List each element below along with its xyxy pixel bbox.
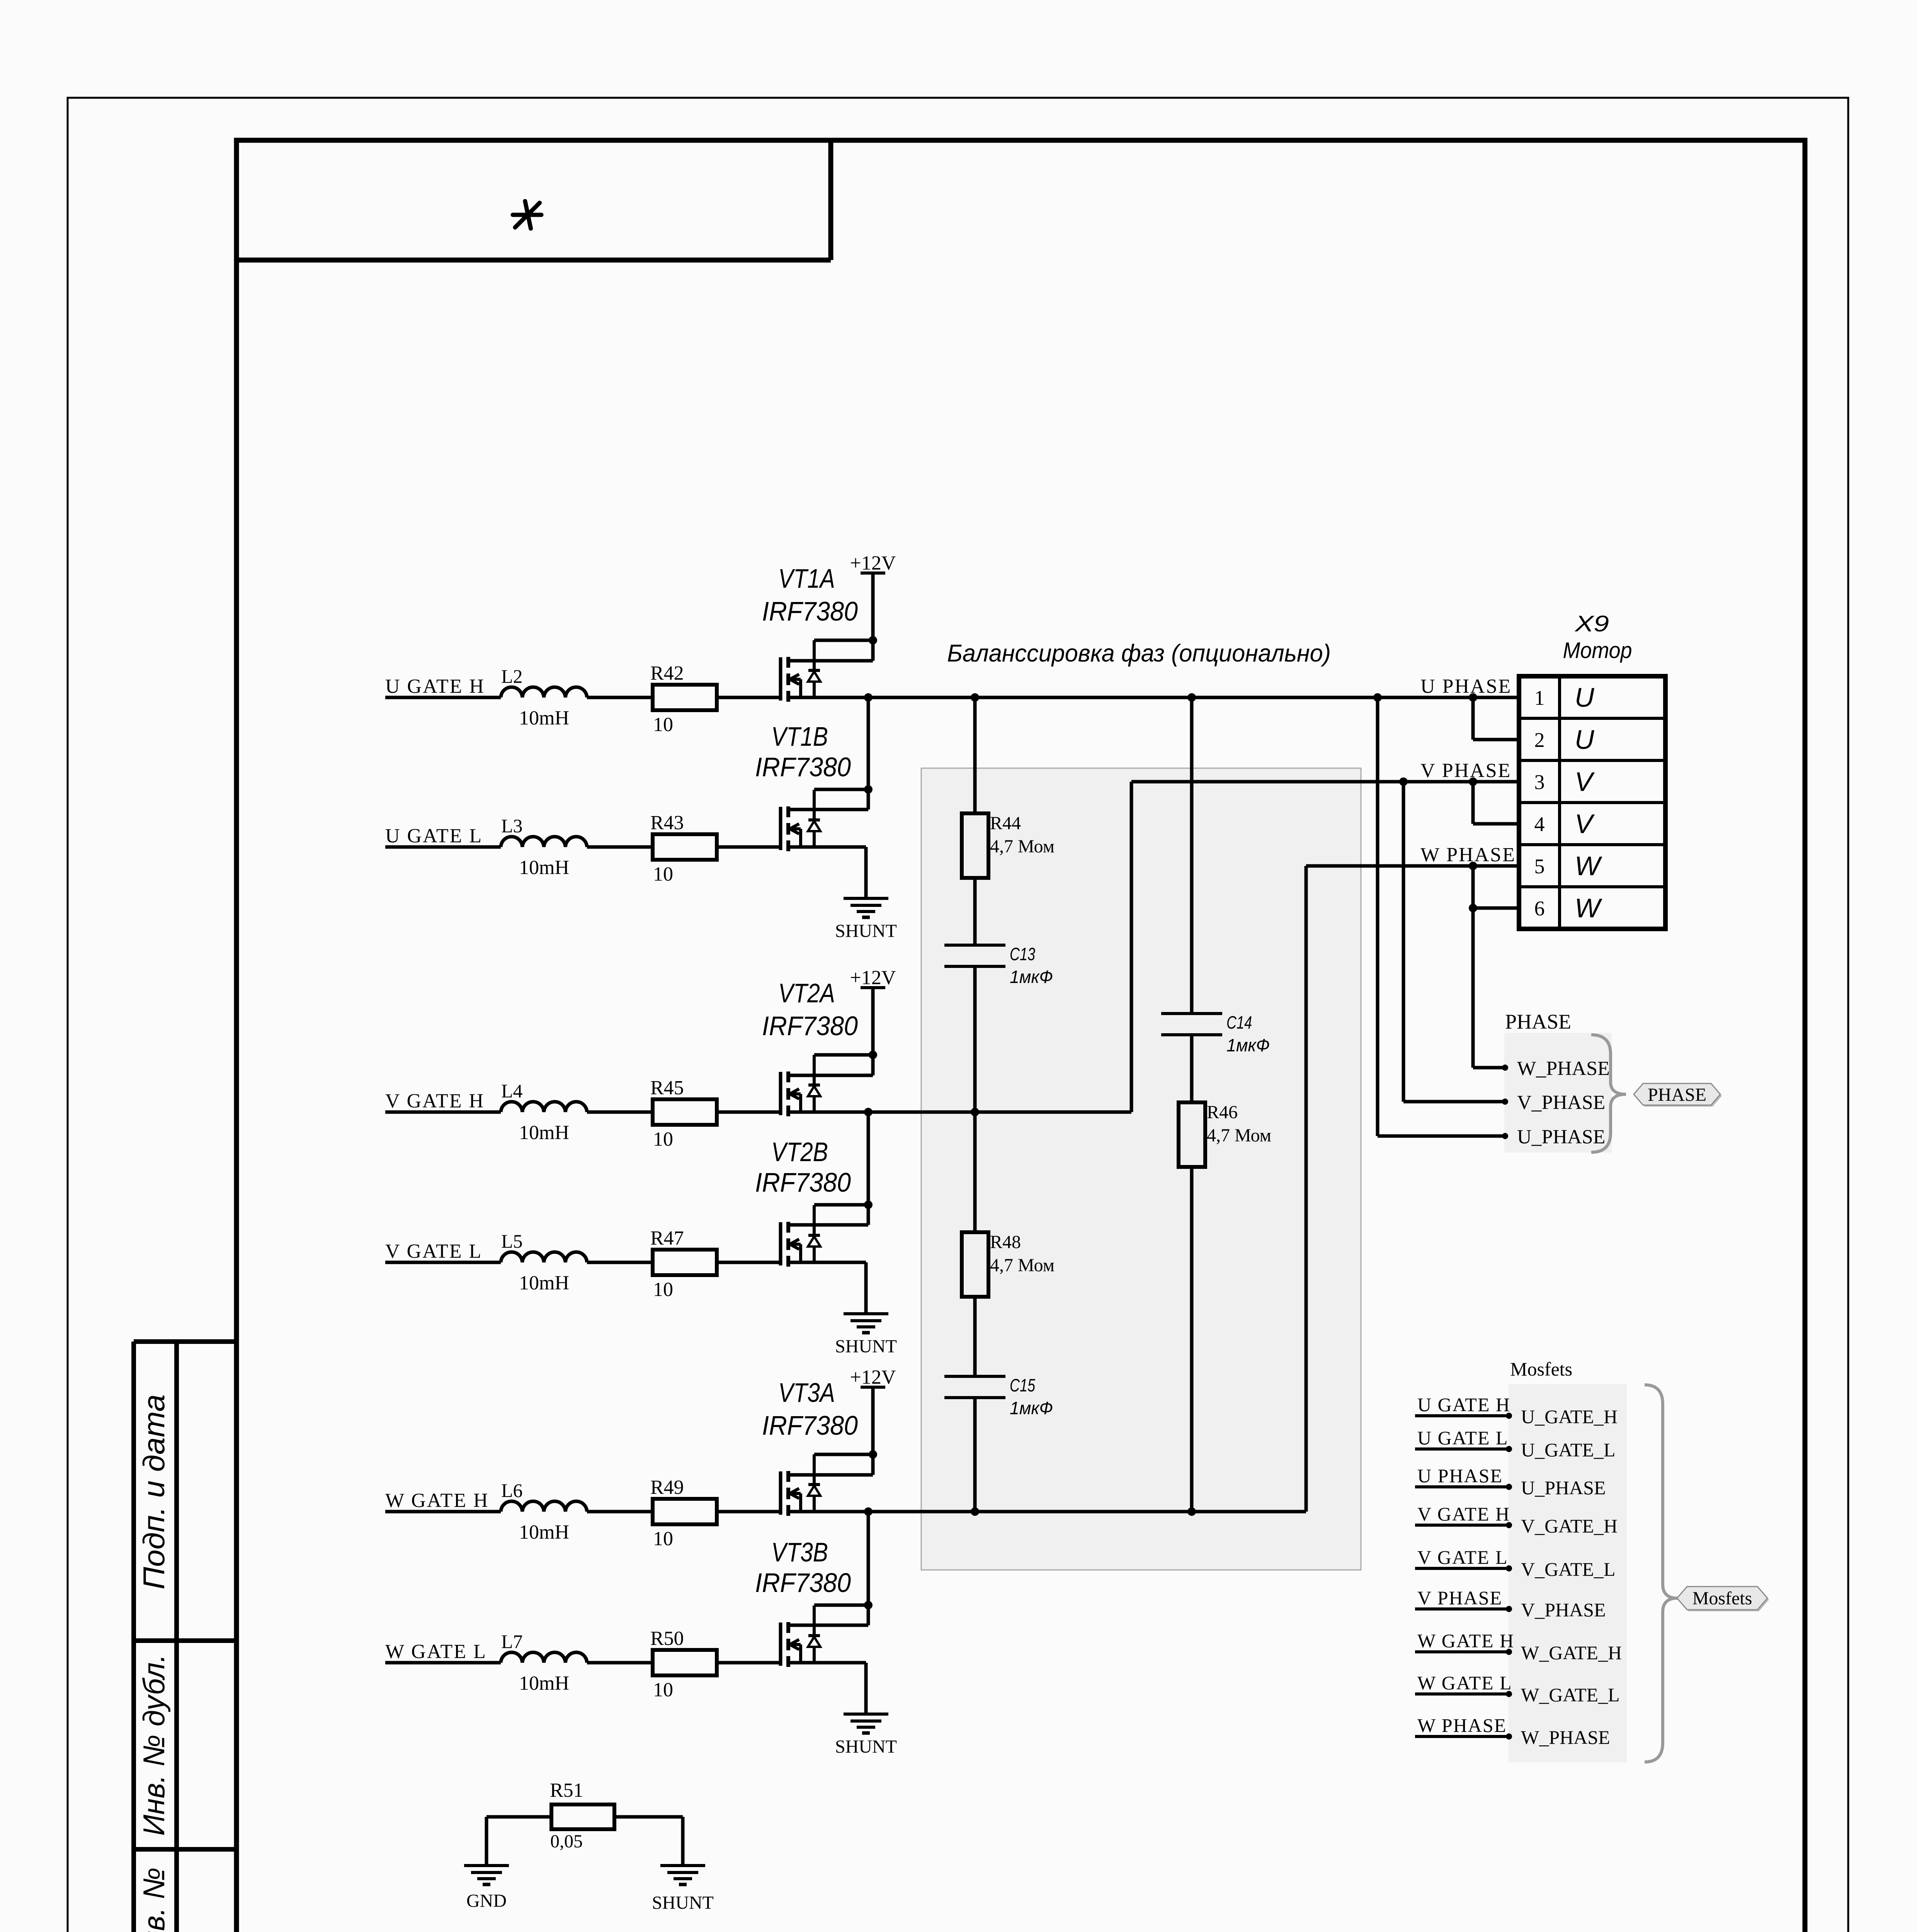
svg-text:V GATE H: V GATE H <box>385 1090 485 1112</box>
svg-text:R51: R51 <box>550 1779 583 1801</box>
svg-text:W GATE H: W GATE H <box>385 1490 489 1512</box>
svg-text:U_GATE_H: U_GATE_H <box>1521 1406 1618 1427</box>
svg-text:1мкФ: 1мкФ <box>1010 967 1053 987</box>
svg-text:IRF7380: IRF7380 <box>762 596 858 626</box>
svg-text:SHUNT: SHUNT <box>835 921 897 941</box>
svg-text:GND: GND <box>466 1891 507 1911</box>
svg-text:R46: R46 <box>1207 1102 1238 1122</box>
svg-text:W GATE L: W GATE L <box>1417 1672 1512 1694</box>
svg-text:VT1A: VT1A <box>778 563 835 594</box>
svg-text:U GATE H: U GATE H <box>1417 1394 1510 1415</box>
svg-text:+12V: +12V <box>850 1366 896 1388</box>
svg-text:W: W <box>1575 893 1602 923</box>
svg-text:4,7 Мом: 4,7 Мом <box>990 1255 1055 1276</box>
svg-text:R49: R49 <box>650 1476 684 1498</box>
svg-text:IRF7380: IRF7380 <box>755 752 851 782</box>
svg-text:W_GATE_L: W_GATE_L <box>1521 1684 1620 1706</box>
svg-text:1мкФ: 1мкФ <box>1010 1398 1053 1418</box>
svg-text:Mosfets: Mosfets <box>1692 1588 1752 1609</box>
svg-text:R48: R48 <box>990 1232 1021 1252</box>
svg-text:C13: C13 <box>1010 944 1035 964</box>
svg-text:U_PHASE: U_PHASE <box>1517 1126 1605 1148</box>
svg-text:U GATE H: U GATE H <box>385 675 485 697</box>
svg-text:4: 4 <box>1534 813 1545 836</box>
svg-text:Мотор: Мотор <box>1563 638 1632 663</box>
svg-text:10: 10 <box>653 714 673 736</box>
svg-text:10mH: 10mH <box>519 1672 569 1694</box>
svg-text:L6: L6 <box>501 1480 523 1501</box>
svg-text:3: 3 <box>1534 770 1545 794</box>
svg-text:W: W <box>1575 851 1602 881</box>
svg-text:W GATE L: W GATE L <box>385 1641 487 1663</box>
svg-text:R42: R42 <box>650 662 684 684</box>
svg-text:+12V: +12V <box>850 967 896 989</box>
svg-text:L2: L2 <box>501 665 523 687</box>
svg-text:C15: C15 <box>1010 1375 1035 1395</box>
svg-text:U GATE L: U GATE L <box>1417 1427 1508 1449</box>
svg-text:R44: R44 <box>990 813 1021 833</box>
svg-text:4,7 Мом: 4,7 Мом <box>990 836 1055 857</box>
svg-text:V PHASE: V PHASE <box>1417 1587 1502 1609</box>
svg-text:W GATE H: W GATE H <box>1417 1630 1514 1651</box>
svg-text:VT1B: VT1B <box>771 721 828 752</box>
svg-text:10mH: 10mH <box>519 1272 569 1294</box>
svg-text:10: 10 <box>653 1679 673 1701</box>
svg-text:V_PHASE: V_PHASE <box>1521 1599 1606 1621</box>
svg-text:10mH: 10mH <box>519 1521 569 1543</box>
svg-text:PHASE: PHASE <box>1648 1085 1706 1105</box>
svg-text:0,05: 0,05 <box>550 1831 583 1852</box>
svg-text:U GATE L: U GATE L <box>385 825 483 847</box>
svg-text:SHUNT: SHUNT <box>652 1893 714 1913</box>
svg-text:V GATE H: V GATE H <box>1417 1503 1510 1525</box>
svg-text:VT2B: VT2B <box>771 1137 828 1167</box>
svg-text:V GATE L: V GATE L <box>385 1240 482 1262</box>
svg-text:R50: R50 <box>650 1628 684 1650</box>
svg-text:10: 10 <box>653 1528 673 1550</box>
svg-text:Баланссировка фаз (опционально: Баланссировка фаз (опционально) <box>947 640 1331 667</box>
svg-text:VT3A: VT3A <box>778 1378 835 1408</box>
svg-text:IRF7380: IRF7380 <box>755 1167 851 1197</box>
svg-text:X9: X9 <box>1574 611 1609 636</box>
svg-text:SHUNT: SHUNT <box>835 1336 897 1357</box>
svg-text:10mH: 10mH <box>519 1122 569 1144</box>
svg-text:U PHASE: U PHASE <box>1417 1465 1503 1486</box>
svg-text:C14: C14 <box>1226 1012 1252 1032</box>
svg-text:W PHASE: W PHASE <box>1417 1714 1507 1736</box>
svg-text:V: V <box>1575 767 1595 797</box>
svg-text:4,7 Мом: 4,7 Мом <box>1207 1125 1271 1146</box>
svg-text:6: 6 <box>1534 897 1545 920</box>
svg-text:V PHASE: V PHASE <box>1420 760 1511 782</box>
svg-text:1мкФ: 1мкФ <box>1226 1035 1270 1055</box>
svg-text:IRF7380: IRF7380 <box>762 1011 858 1041</box>
svg-text:U PHASE: U PHASE <box>1420 675 1512 697</box>
svg-text:IRF7380: IRF7380 <box>762 1410 858 1440</box>
svg-text:Инв. № дубл.: Инв. № дубл. <box>137 1654 171 1836</box>
svg-text:VT2A: VT2A <box>778 978 835 1008</box>
svg-text:V: V <box>1575 809 1595 839</box>
svg-text:+12V: +12V <box>850 552 896 574</box>
svg-text:Mosfets: Mosfets <box>1510 1358 1572 1380</box>
svg-text:SHUNT: SHUNT <box>835 1736 897 1757</box>
svg-text:V GATE L: V GATE L <box>1417 1546 1508 1568</box>
svg-text:L5: L5 <box>501 1230 523 1252</box>
svg-text:10mH: 10mH <box>519 707 569 729</box>
svg-text:U_GATE_L: U_GATE_L <box>1521 1439 1615 1461</box>
svg-text:L3: L3 <box>501 815 523 837</box>
svg-text:5: 5 <box>1534 855 1545 878</box>
svg-text:V_GATE_H: V_GATE_H <box>1521 1515 1618 1537</box>
svg-text:10: 10 <box>653 1279 673 1301</box>
svg-text:W_PHASE: W_PHASE <box>1517 1058 1610 1080</box>
svg-text:Подп. и дата: Подп. и дата <box>137 1395 171 1590</box>
svg-text:IRF7380: IRF7380 <box>755 1568 851 1598</box>
svg-text:PHASE: PHASE <box>1505 1010 1571 1033</box>
svg-text:10: 10 <box>653 1128 673 1150</box>
svg-text:10mH: 10mH <box>519 857 569 879</box>
svg-text:U: U <box>1575 724 1594 755</box>
svg-text:L4: L4 <box>501 1080 523 1102</box>
svg-text:V_PHASE: V_PHASE <box>1517 1092 1605 1114</box>
svg-text:W PHASE: W PHASE <box>1420 844 1516 866</box>
svg-text:1: 1 <box>1534 686 1545 709</box>
svg-text:W_PHASE: W_PHASE <box>1521 1726 1610 1748</box>
svg-text:R47: R47 <box>650 1227 684 1249</box>
svg-text:VT3B: VT3B <box>771 1537 828 1567</box>
svg-text:2: 2 <box>1534 728 1545 752</box>
svg-text:Взам. инв. №: Взам. инв. № <box>137 1867 171 1932</box>
svg-text:U_PHASE: U_PHASE <box>1521 1477 1606 1498</box>
svg-text:V_GATE_L: V_GATE_L <box>1521 1558 1615 1580</box>
svg-text:R45: R45 <box>650 1077 684 1099</box>
svg-text:L7: L7 <box>501 1631 523 1652</box>
svg-text:U: U <box>1575 682 1594 713</box>
svg-text:R43: R43 <box>650 812 684 834</box>
svg-text:10: 10 <box>653 863 673 885</box>
svg-text:W_GATE_H: W_GATE_H <box>1521 1642 1622 1663</box>
